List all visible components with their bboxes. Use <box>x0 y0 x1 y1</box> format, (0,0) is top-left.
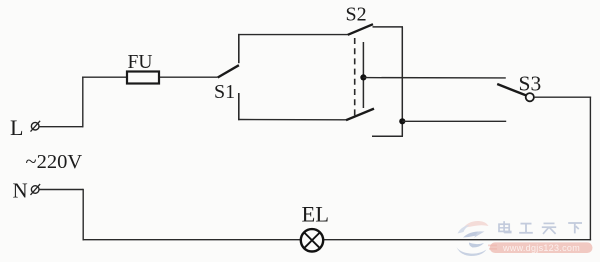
wire riser N down <box>82 189 84 241</box>
S2 cross contact vertical wire <box>362 42 364 108</box>
svg-text:S1: S1 <box>214 81 235 103</box>
wire N terminal to riser <box>39 189 83 191</box>
wire L terminal to riser <box>39 126 83 128</box>
watermark logo <box>457 221 498 256</box>
switch S3 blade <box>497 84 527 96</box>
svg-text:EL: EL <box>302 202 330 227</box>
wire to fuse and on to S1 <box>82 76 218 78</box>
terminal N <box>31 184 41 195</box>
svg-text:www.dgjs123.com: www.dgjs123.com <box>502 243 580 253</box>
switch S1 upper contact <box>238 34 240 63</box>
terminal L <box>31 121 41 132</box>
switch S2 top blade <box>348 24 373 35</box>
switch S2 bottom contact wire <box>372 135 403 137</box>
dashed linkage of S2 <box>354 38 356 117</box>
wire bottom rail <box>238 119 346 121</box>
svg-text:S3: S3 <box>519 71 542 95</box>
junction dot middle node <box>360 74 366 80</box>
wire top rail <box>238 34 348 36</box>
switch S2 bottom blade <box>346 109 374 121</box>
svg-text:FU: FU <box>128 52 153 73</box>
char 天 <box>542 223 556 234</box>
fuse FU <box>127 72 159 84</box>
junction dot right node <box>399 118 405 124</box>
wire right node to S3 bottom contact <box>402 120 506 122</box>
svg-text:~220V: ~220V <box>26 151 83 173</box>
lamp EL <box>301 229 323 251</box>
svg-text:N: N <box>13 179 28 203</box>
wire middle node to S3 top contact <box>363 77 505 79</box>
wire right vertical <box>589 97 591 241</box>
wire bottom rail <box>83 239 592 241</box>
switch S1 blade <box>218 65 239 77</box>
wire riser L up <box>82 77 84 128</box>
wire vertical right of S2 <box>401 27 403 136</box>
char 工 <box>519 224 533 233</box>
watermark pill <box>490 242 593 253</box>
switch S1 lower contact <box>238 93 240 120</box>
svg-text:S2: S2 <box>346 4 367 26</box>
wire S3 to right edge <box>534 96 591 98</box>
switch S2 top contact wire <box>373 26 404 28</box>
watermark text 电工天下 drawn as strokes <box>499 221 582 234</box>
char 电 <box>499 221 511 232</box>
char 下 <box>568 223 582 233</box>
switch S3 pivot circle <box>526 93 534 101</box>
svg-text:L: L <box>10 115 23 140</box>
